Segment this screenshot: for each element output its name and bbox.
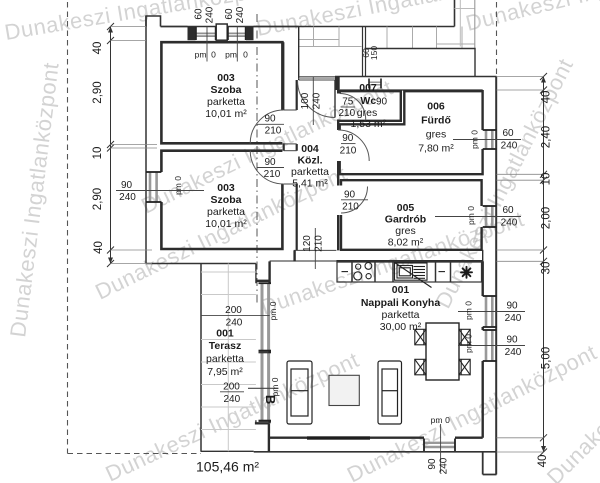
corridor left wall segments — [296, 80, 298, 250]
upper building gray lines top-right — [455, 8, 475, 10]
svg-text:8,02 m²: 8,02 m² — [388, 237, 424, 249]
wall stub right between wardrobe and living — [482, 250, 484, 261]
door sill lines room 003 lower — [284, 150, 297, 152]
dashed extension line top-right — [496, 2, 498, 77]
svg-text:parketta: parketta — [207, 206, 245, 218]
room label 004 — [291, 143, 329, 190]
svg-text:30,00 m²: 30,00 m² — [380, 321, 422, 333]
terrace-living wall bottom piece — [255, 423, 269, 452]
left dim extension lines — [111, 27, 158, 264]
svg-text:90: 90 — [506, 335, 518, 346]
terrace outline left — [200, 264, 202, 452]
kitchen counter outline — [337, 261, 482, 282]
svg-text:2,90: 2,90 — [92, 188, 104, 210]
svg-text:75: 75 — [342, 97, 354, 108]
svg-text:150: 150 — [369, 46, 379, 60]
door sill lines room 003 upper bottom — [284, 143, 297, 145]
entry recess wall left line — [283, 42, 285, 110]
flat outer wall left — [145, 16, 147, 264]
living room right border segments — [482, 261, 484, 437]
room label 005 — [385, 202, 426, 249]
svg-text:pm: pm — [195, 50, 207, 60]
entry door leader — [312, 77, 314, 125]
flat outer wall bottom-left (under room 003) — [146, 263, 256, 265]
flat outer wall top (right section) — [335, 76, 497, 78]
svg-text:001: 001 — [216, 328, 234, 340]
svg-text:Fürdő: Fürdő — [421, 115, 451, 127]
svg-text:200: 200 — [223, 381, 240, 392]
svg-text:40: 40 — [537, 455, 549, 468]
svg-text:0: 0 — [445, 415, 450, 425]
window right wall bathroom glazing — [483, 130, 497, 149]
property boundary dashed horizontal — [68, 453, 202, 455]
svg-text:90: 90 — [264, 157, 276, 168]
window top wall 2 glazing — [228, 27, 247, 40]
svg-text:200: 200 — [225, 305, 242, 316]
svg-text:90: 90 — [264, 114, 276, 125]
wall stub between 003 rooms at corridor — [283, 143, 285, 150]
svg-text:10: 10 — [541, 173, 553, 186]
flat outer wall bottom — [254, 451, 497, 453]
svg-text:240: 240 — [505, 313, 522, 324]
living room left border stubs — [268, 261, 270, 423]
room label 003 lower — [205, 182, 247, 230]
sofa right — [378, 361, 402, 424]
living room top-left wall stub — [293, 250, 295, 261]
svg-text:90: 90 — [506, 301, 518, 312]
svg-text:10,01 m²: 10,01 m² — [205, 218, 247, 230]
upper building bottom edge — [161, 26, 455, 28]
window bottom wall glazing — [424, 439, 455, 452]
svg-text:210: 210 — [314, 235, 325, 252]
svg-text:Wc: Wc — [360, 95, 376, 107]
svg-text:210: 210 — [264, 169, 281, 180]
room 003 upper door arc — [250, 110, 284, 144]
entry door sill glazing line — [299, 77, 335, 79]
center dash-dot line — [256, 14, 258, 305]
WC door arc — [340, 94, 366, 120]
svg-text:240: 240 — [223, 394, 240, 405]
entry door swing arc — [298, 80, 336, 118]
svg-text:100: 100 — [300, 92, 311, 109]
terrace tile rows — [201, 264, 256, 452]
living window 2 leader — [458, 345, 525, 347]
window top wall 2 right jamb block — [246, 27, 254, 40]
svg-text:parketta: parketta — [207, 96, 245, 108]
svg-text:90: 90 — [376, 97, 388, 108]
dark glazing band in bottom wall — [307, 436, 370, 439]
living window 1 leader — [458, 311, 525, 313]
svg-text:006: 006 — [427, 101, 445, 113]
coffee table — [329, 375, 359, 405]
pillar between top windows — [216, 24, 227, 40]
bathroom 006 box L-shape lower — [340, 149, 483, 174]
svg-text:210: 210 — [265, 126, 282, 137]
svg-text:240: 240 — [312, 92, 323, 109]
corridor right wall segments — [337, 90, 339, 250]
right dim arrowheads — [541, 77, 546, 453]
tile band lower-right dark edge — [365, 49, 476, 77]
svg-text:gres: gres — [395, 225, 415, 237]
svg-text:240: 240 — [205, 6, 216, 23]
leader lower 003 window — [116, 190, 204, 192]
svg-text:240: 240 — [439, 457, 450, 474]
living room top wall inner edge — [336, 260, 482, 263]
right dim extension lines — [497, 77, 544, 453]
top wall inner face right section — [340, 89, 483, 91]
window top wall 1 left jamb block — [188, 27, 196, 40]
svg-text:105,46 m²: 105,46 m² — [196, 459, 259, 475]
chair bottom-right — [459, 359, 470, 375]
room label 003 upper — [205, 72, 247, 120]
living room bottom wall inner edge — [270, 437, 483, 439]
svg-text:004: 004 — [301, 143, 319, 155]
WC box — [340, 91, 401, 121]
svg-text:40: 40 — [92, 42, 104, 55]
door sill lines room 003 lower bottom — [284, 183, 297, 185]
terrace door B label bar — [220, 391, 244, 393]
svg-text:pm 0: pm 0 — [173, 176, 183, 195]
room label 007 WC — [350, 82, 386, 130]
corridor bottom opening line bottom — [270, 260, 337, 262]
room 003 lower box right+bottom — [161, 184, 282, 249]
svg-text:240: 240 — [235, 6, 246, 23]
window right wall living 2 glazing — [483, 330, 497, 361]
svg-text:pm 0: pm 0 — [470, 130, 480, 149]
svg-text:240: 240 — [501, 141, 518, 152]
right dimension line — [540, 73, 547, 456]
svg-text:1,53 m²: 1,53 m² — [350, 118, 386, 130]
svg-text:2,40: 2,40 — [541, 126, 553, 148]
svg-text:pm 0: pm 0 — [466, 206, 476, 225]
svg-text:pm: pm — [431, 415, 443, 425]
svg-text:60: 60 — [194, 8, 205, 20]
fridge snowflake — [461, 267, 472, 278]
leader top window 2 — [236, 27, 238, 62]
shaft double line 60/150 — [362, 27, 364, 77]
svg-text:210: 210 — [342, 202, 359, 213]
bottom window leader — [440, 424, 442, 472]
room 003 lower box top+left stub — [161, 151, 282, 172]
chair top-right — [459, 329, 470, 345]
svg-text:007: 007 — [359, 82, 377, 94]
svg-text:90: 90 — [344, 190, 356, 201]
upper building right edge — [454, 0, 456, 27]
svg-text:003: 003 — [217, 72, 235, 84]
svg-text:7,95 m²: 7,95 m² — [207, 366, 243, 378]
svg-text:pm 0: pm 0 — [268, 301, 278, 320]
living room step corner top — [256, 280, 270, 282]
svg-text:2,00: 2,00 — [541, 207, 553, 229]
counter dash marks — [342, 271, 349, 273]
svg-text:60: 60 — [502, 205, 514, 216]
svg-text:005: 005 — [397, 202, 415, 214]
svg-text:30: 30 — [541, 262, 553, 275]
svg-text:210: 210 — [340, 146, 357, 157]
window right wall wardrobe glazing — [483, 206, 497, 227]
room 003 upper box — [161, 42, 282, 143]
terrace door B glazing — [259, 353, 272, 421]
svg-text:pm: pm — [225, 50, 237, 60]
room label 001 terrace — [206, 328, 244, 379]
room 003 lower door arc — [250, 151, 284, 185]
corridor opening leader — [314, 228, 316, 269]
svg-text:Szoba: Szoba — [211, 84, 242, 96]
svg-text:90: 90 — [427, 458, 438, 470]
bathroom door arc — [338, 130, 369, 161]
terrace window 1 leader — [201, 315, 270, 317]
terrace window 1 glazing — [259, 283, 272, 351]
pillar top-left of building — [146, 16, 161, 27]
svg-text:parketta: parketta — [382, 309, 420, 321]
svg-text:60: 60 — [224, 8, 235, 20]
left dim arrowheads — [108, 27, 113, 264]
WC vent window in top wall — [369, 79, 381, 89]
svg-text:0: 0 — [211, 50, 216, 60]
svg-text:pm 0: pm 0 — [464, 301, 474, 320]
dining table — [426, 323, 459, 380]
window top wall 1 glazing — [196, 27, 217, 40]
room label 006 — [418, 101, 454, 155]
leader top window 1 — [206, 27, 208, 62]
svg-text:10: 10 — [92, 147, 104, 160]
svg-text:90: 90 — [342, 133, 354, 144]
wardrobe window leader — [435, 216, 521, 218]
sink unit — [395, 263, 432, 288]
wardrobe door arc — [341, 187, 368, 214]
svg-text:Gardrób: Gardrób — [385, 214, 426, 226]
svg-text:0: 0 — [243, 50, 248, 60]
svg-text:90: 90 — [121, 180, 133, 191]
sofa left — [287, 361, 312, 424]
svg-text:001: 001 — [392, 284, 410, 296]
svg-text:Nappali Konyha: Nappali Konyha — [361, 297, 441, 309]
svg-text:240: 240 — [119, 192, 136, 203]
svg-text:120: 120 — [302, 235, 313, 252]
svg-text:240: 240 — [501, 218, 518, 229]
room label 001 living — [361, 284, 441, 333]
svg-text:Közl.: Közl. — [297, 155, 322, 167]
tile band grid upper terrace — [299, 27, 475, 49]
kitchen counter dividers — [352, 261, 451, 282]
svg-text:240: 240 — [505, 347, 522, 358]
bathroom 006 box L-shape upper — [340, 91, 483, 130]
svg-text:40: 40 — [541, 91, 553, 104]
svg-text:pm 0: pm 0 — [464, 334, 474, 353]
terrace door B leader — [248, 387, 279, 389]
entry recess wall right line — [298, 27, 300, 81]
svg-text:gres: gres — [426, 129, 446, 141]
window right wall living 1 glazing — [483, 296, 497, 327]
window left wall room 003 lower glazing — [146, 172, 161, 202]
entry door leaf — [334, 80, 336, 118]
svg-text:2,90: 2,90 — [92, 81, 104, 103]
corridor bottom opening line top — [294, 249, 337, 251]
svg-text:parketta: parketta — [206, 353, 244, 365]
flat outer wall right — [495, 77, 497, 475]
svg-text:003: 003 — [217, 182, 235, 194]
svg-text:parketta: parketta — [291, 166, 329, 178]
svg-text:10,01 m²: 10,01 m² — [205, 108, 247, 120]
terrace-living wall left face segments — [255, 264, 257, 424]
entry door right jamb block — [335, 77, 340, 91]
svg-text:40: 40 — [93, 241, 105, 254]
svg-text:Szoba: Szoba — [211, 194, 242, 206]
svg-text:7,80 m²: 7,80 m² — [418, 143, 454, 155]
svg-text:Terasz: Terasz — [209, 340, 242, 352]
entry door threshold lines — [299, 76, 335, 78]
left dimension line — [107, 23, 114, 267]
door sill lines room 003 upper — [284, 109, 297, 111]
svg-text:60: 60 — [502, 128, 514, 139]
property boundary dashed vertical — [67, 2, 69, 454]
right wall stub below living room — [483, 452, 497, 475]
stove burners — [354, 263, 372, 281]
svg-text:5,00: 5,00 — [541, 347, 553, 369]
wardrobe 005 box — [341, 180, 482, 250]
chair top-left — [415, 329, 426, 345]
svg-text:5,41 m²: 5,41 m² — [292, 178, 328, 190]
top wall outer line across — [161, 26, 299, 28]
bathroom window leader — [453, 139, 521, 141]
svg-text:pm 0: pm 0 — [270, 377, 280, 396]
chair bottom-left — [415, 359, 426, 375]
terrace bottom edge — [201, 450, 254, 452]
